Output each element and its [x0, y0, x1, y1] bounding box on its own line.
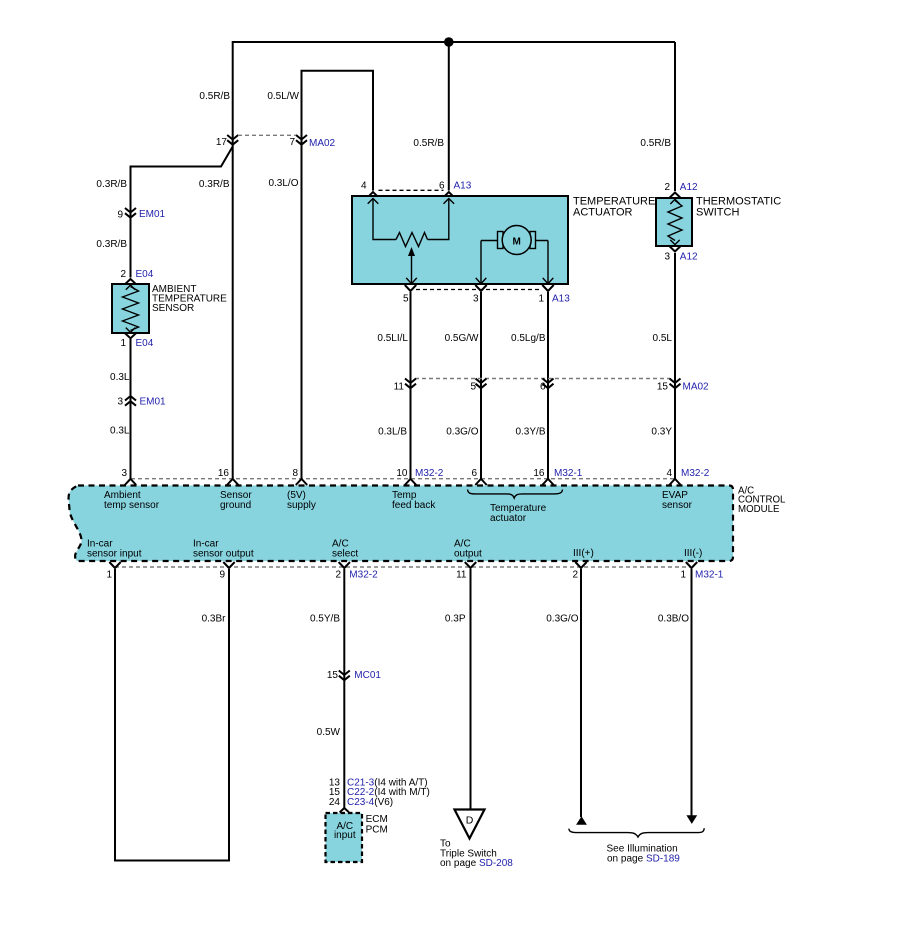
ACCM pin 11 bottom chevron [465, 562, 476, 568]
svg-text:15: 15 [657, 382, 669, 393]
svg-text:1: 1 [680, 570, 686, 581]
svg-text:3: 3 [121, 468, 127, 479]
svg-text:0.3R/B: 0.3R/B [96, 239, 127, 250]
svg-text:0.3R/B: 0.3R/B [96, 179, 127, 190]
connector MA02 pin 11 (double chevron) [405, 379, 416, 389]
svg-text:0.5W: 0.5W [317, 727, 341, 738]
switch pin 3 chevron [669, 246, 680, 252]
svg-text:3: 3 [117, 397, 123, 408]
wiper arrow [411, 254, 413, 284]
connector EM01 pin 3 (double chevron up) [125, 396, 136, 406]
underbrace see illumination [569, 828, 704, 837]
svg-text:3: 3 [473, 294, 479, 305]
svg-text:0.5R/B: 0.5R/B [413, 138, 444, 149]
svg-text:on page SD-208: on page SD-208 [440, 858, 513, 869]
connector MA02 pin 15 (double chevron) [670, 379, 681, 389]
connector E04 pin 1 (chevron at sensor bottom) [125, 333, 136, 338]
A/C input box [326, 813, 363, 862]
connector MC01 pin 15 (double chevron) [339, 671, 350, 681]
wire 0.5R/B to thermostatic switch pin2 [674, 42, 676, 191]
svg-text:1: 1 [538, 294, 544, 305]
svg-text:M32-2: M32-2 [415, 468, 444, 479]
brace temperature actuator group [468, 490, 563, 499]
svg-text:6: 6 [540, 382, 546, 393]
svg-text:0.3L/O: 0.3L/O [268, 178, 298, 189]
svg-text:select: select [332, 548, 358, 559]
svg-text:4: 4 [666, 468, 672, 479]
svg-text:sensor: sensor [662, 500, 693, 511]
svg-text:0.5R/B: 0.5R/B [640, 138, 671, 149]
wire 0.5Lg/B / 0.3Y/B actuator pin1 to ACCM pin16 [547, 292, 549, 479]
ACCM pin 10 chevron [405, 479, 416, 485]
thermostatic switch box [656, 198, 692, 246]
ACCM pin 4 chevron [669, 479, 680, 485]
svg-text:7: 7 [289, 137, 295, 148]
svg-text:input: input [334, 830, 356, 841]
A/C input pin chevron [340, 808, 349, 812]
ACCM bottom pins gray dashed row [115, 566, 691, 568]
ACCM pin 1b bottom chevron [686, 562, 697, 568]
svg-text:output: output [454, 548, 482, 559]
dashed link actuator pins 5-3-1 [416, 289, 542, 291]
junction dot [444, 37, 454, 47]
svg-text:11: 11 [456, 570, 467, 581]
svg-text:III(-): III(-) [684, 548, 702, 559]
ACCM pin 9 bottom chevron [223, 562, 234, 568]
ACCM pin 2b bottom chevron [575, 562, 586, 568]
motor M inside actuator [476, 226, 554, 284]
svg-text:16: 16 [533, 468, 545, 479]
connector MA02 row dashed link [415, 378, 670, 380]
svg-text:E04: E04 [136, 269, 154, 280]
connector joint 17 (double chevron) [227, 135, 238, 145]
wire branch 0.3R/B to ambient temp sensor [131, 147, 233, 278]
actuator pin 5 chevron [405, 285, 416, 291]
connector MA02 pin 7 (double chevron) [296, 135, 307, 145]
svg-text:0.3G/O: 0.3G/O [446, 427, 478, 438]
svg-text:6: 6 [439, 180, 445, 191]
svg-text:sensor input: sensor input [87, 548, 142, 559]
wire 0.3G/O III(+) [580, 569, 582, 817]
svg-text:SENSOR: SENSOR [152, 303, 194, 314]
svg-text:actuator: actuator [490, 513, 527, 524]
wire 0.3P A/C output to triangle D [470, 569, 472, 810]
svg-text:0.3Br: 0.3Br [202, 614, 227, 625]
svg-text:A12: A12 [680, 182, 698, 193]
wire 0.5L/W / 0.3L/O column to ACCM pin8 and actuator pin4 [302, 71, 374, 479]
svg-text:0.5LI/L: 0.5LI/L [377, 333, 408, 344]
arrow down III(-) [686, 815, 697, 824]
actuator pin 6 chevron [445, 192, 454, 196]
svg-text:MODULE: MODULE [738, 504, 780, 515]
svg-text:sensor output: sensor output [193, 548, 254, 559]
wire 0.5L / 0.3Y switch pin3 to ACCM pin4 [674, 253, 676, 479]
wire 0.5G/W / 0.3G/O actuator pin3 to ACCM pin6 [480, 292, 482, 479]
connector E04 pin 2 (chevron at sensor top) [125, 279, 136, 284]
svg-text:C23-4(V6): C23-4(V6) [347, 797, 393, 808]
svg-text:4: 4 [361, 180, 367, 191]
svg-text:on page SD-189: on page SD-189 [607, 853, 680, 864]
svg-text:MC01: MC01 [354, 670, 381, 681]
svg-text:15: 15 [327, 670, 339, 681]
svg-text:E04: E04 [136, 338, 154, 349]
dashed link 17 to MA02 [238, 134, 296, 136]
CONNECTORS [109, 135, 697, 812]
svg-text:M32-2: M32-2 [681, 468, 710, 479]
svg-text:supply: supply [287, 500, 316, 511]
svg-text:0.3Y/B: 0.3Y/B [515, 427, 545, 438]
svg-text:M: M [513, 237, 521, 248]
arrow up III(+) [576, 816, 587, 825]
svg-text:17: 17 [216, 137, 228, 148]
svg-text:0.3L/B: 0.3L/B [378, 427, 407, 438]
wire 0.5R/B from junction to actuator pin6 [448, 42, 450, 191]
svg-text:9: 9 [219, 570, 225, 581]
svg-text:0.5Lg/B: 0.5Lg/B [511, 333, 546, 344]
actuator pin 3 chevron [475, 285, 486, 291]
thermistor element [126, 285, 135, 290]
svg-text:MA02: MA02 [309, 138, 336, 149]
svg-text:24: 24 [329, 797, 341, 808]
svg-text:0.3P: 0.3P [445, 614, 466, 625]
wire 0.3L from sensor pin1 to ACCM pin3 [130, 339, 132, 479]
svg-text:2: 2 [572, 570, 578, 581]
svg-text:0.3G/O: 0.3G/O [546, 614, 578, 625]
connector EM01 pin 9 (double chevron) [125, 208, 136, 218]
ACCM pin 2 bottom chevron [339, 562, 350, 568]
svg-text:3: 3 [664, 252, 670, 263]
ACCM top pins gray dashed row [131, 478, 675, 480]
svg-text:16: 16 [218, 468, 230, 479]
svg-text:1: 1 [120, 338, 126, 349]
ambient temperature sensor box [112, 284, 149, 333]
svg-text:SWITCH: SWITCH [696, 207, 739, 219]
wire top supply rail + 0.5R/B down to sensor ground column [233, 42, 675, 479]
svg-text:6: 6 [471, 468, 477, 479]
connector MA02 pin 5 (double chevron) [476, 379, 487, 389]
svg-text:2: 2 [664, 182, 670, 193]
svg-text:0.5Y/B: 0.5Y/B [310, 614, 340, 625]
svg-text:A13: A13 [552, 294, 570, 305]
actuator pin 1 chevron [542, 285, 553, 291]
svg-text:temp sensor: temp sensor [104, 500, 160, 511]
svg-text:A12: A12 [680, 252, 698, 263]
svg-text:10: 10 [396, 468, 408, 479]
connector MA02 pin 6 (double chevron) [543, 379, 554, 389]
svg-text:EM01: EM01 [139, 209, 166, 220]
svg-text:2: 2 [120, 269, 126, 280]
potentiometer inside actuator [368, 199, 454, 284]
svg-text:0.5L: 0.5L [653, 333, 673, 344]
svg-text:D: D [466, 815, 474, 827]
temperature actuator box [352, 196, 568, 284]
svg-text:1: 1 [106, 570, 112, 581]
triangle D to triple switch [455, 810, 485, 839]
svg-text:0.5R/B: 0.5R/B [199, 91, 230, 102]
svg-text:feed back: feed back [392, 500, 436, 511]
ACCM pin 6 chevron [475, 479, 486, 485]
A/C control module band [69, 486, 733, 562]
svg-text:M32-1: M32-1 [554, 468, 583, 479]
wire 0.3B/O III(-) [691, 569, 693, 816]
svg-text:ACTUATOR: ACTUATOR [573, 207, 633, 219]
wire in-car sensor loop pins 1-9 [115, 569, 229, 861]
svg-text:MA02: MA02 [683, 382, 710, 393]
svg-text:0.3B/O: 0.3B/O [658, 614, 689, 625]
svg-text:EM01: EM01 [140, 396, 167, 407]
svg-text:11: 11 [394, 382, 405, 393]
dashed link actuator pins 4-6 [379, 189, 444, 191]
svg-text:0.5G/W: 0.5G/W [445, 333, 479, 344]
svg-text:2: 2 [335, 570, 341, 581]
ACCM pin 3 chevron [125, 479, 136, 485]
svg-text:PCM: PCM [366, 824, 388, 835]
svg-text:ground: ground [220, 500, 251, 511]
wire 0.5Y/B / 0.5W A/C select to A/C input [343, 569, 345, 808]
switch pin 2 chevron [669, 193, 680, 199]
ACCM pin 16 chevron [227, 479, 238, 485]
svg-text:0.3L: 0.3L [110, 426, 130, 437]
svg-text:0.3Y: 0.3Y [651, 427, 672, 438]
svg-text:III(+): III(+) [573, 548, 594, 559]
actuator pin 4 chevron [369, 192, 378, 196]
svg-text:5: 5 [403, 294, 409, 305]
wire 0.5LI/L / 0.3L/B actuator pin5 to ACCM pin10 [410, 292, 412, 479]
svg-text:5: 5 [470, 382, 476, 393]
svg-text:0.3L: 0.3L [110, 372, 130, 383]
ACCM pin 16b chevron [542, 479, 553, 485]
svg-text:8: 8 [292, 468, 298, 479]
svg-text:9: 9 [117, 209, 123, 220]
svg-text:A13: A13 [454, 180, 472, 191]
svg-text:0.5L/W: 0.5L/W [267, 91, 299, 102]
ACCM pin 8 chevron [296, 479, 307, 485]
ACCM pin 1 bottom chevron [109, 562, 120, 568]
svg-text:M32-2: M32-2 [349, 570, 378, 581]
svg-text:M32-1: M32-1 [695, 570, 724, 581]
svg-text:0.3R/B: 0.3R/B [199, 179, 230, 190]
